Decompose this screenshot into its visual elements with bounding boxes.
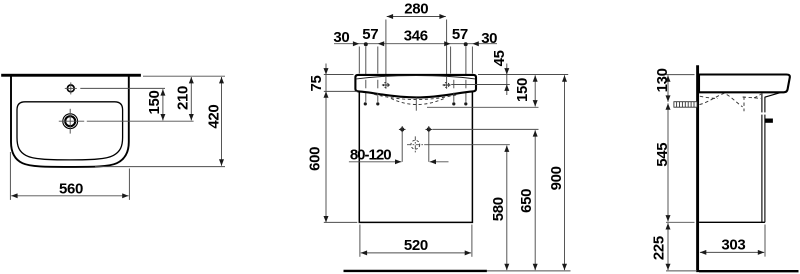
arrow 45 top bbox=[504, 68, 509, 74]
svg-text:30: 30 bbox=[333, 29, 349, 46]
chain arrow inside right (346) bbox=[444, 41, 450, 46]
siphon hole (dashed circle) bbox=[407, 136, 424, 153]
svg-text:80-120: 80-120 bbox=[350, 146, 391, 163]
svg-text:75: 75 bbox=[308, 76, 325, 92]
washbasin front outline bbox=[355, 75, 476, 98]
arrow 75 top bbox=[324, 68, 329, 74]
extension 150 bottom bbox=[427, 106, 539, 108]
extension line 130 top bbox=[666, 74, 695, 76]
basin inner rim arc bbox=[356, 76, 475, 79]
cabinet side body front edge bbox=[761, 94, 763, 223]
chain extension lines bbox=[358, 47, 360, 74]
svg-text:150: 150 bbox=[514, 78, 531, 102]
faucet hole right bbox=[443, 77, 451, 89]
80-120 leader right bbox=[430, 161, 449, 163]
svg-text:600: 600 bbox=[306, 147, 323, 171]
svg-text:45: 45 bbox=[491, 50, 508, 66]
washbasin outer rim bbox=[11, 76, 129, 166]
floor line thin (extension) bbox=[487, 270, 571, 272]
hidden bowl profile dashed bbox=[700, 93, 743, 106]
fixing dot 1 bbox=[364, 102, 367, 105]
svg-text:650: 650 bbox=[518, 189, 535, 213]
chain dot right (57) bbox=[464, 42, 468, 46]
extension lines 520 bbox=[359, 225, 361, 257]
faucet hole left bbox=[382, 77, 390, 89]
support gusset diagonal bbox=[765, 93, 781, 98]
fixing dot 4 bbox=[464, 102, 467, 105]
fixing dot 3 bbox=[452, 102, 455, 105]
door seam gap bbox=[761, 112, 766, 114]
dimension 560 bbox=[11, 195, 128, 197]
extension cabinet bottom left bbox=[324, 221, 358, 223]
svg-text:420: 420 bbox=[205, 105, 222, 129]
extension lines from fixing holes down bbox=[401, 133, 403, 162]
cabinet fixing hole left bbox=[399, 126, 406, 133]
dimension 150 (overflow to drain) bbox=[162, 89, 164, 120]
extension faucet height (45) bbox=[451, 84, 510, 86]
dimension 45 column bbox=[506, 64, 508, 96]
extension 580 (to siphon hole) bbox=[424, 144, 510, 146]
floor line right view bbox=[699, 270, 799, 272]
extension 303 (door front) bbox=[764, 225, 766, 257]
chain dot left (57) bbox=[364, 42, 368, 46]
extension lines for 560 bbox=[9, 152, 11, 200]
dimension 210 (rim to drain) bbox=[190, 77, 192, 120]
dimension column 75/600 bbox=[325, 64, 327, 223]
extension line top (from wall bar end) bbox=[143, 75, 225, 77]
svg-text:225: 225 bbox=[650, 236, 667, 260]
drain crosshair horizontal + leader bbox=[59, 120, 194, 122]
arrow 600 bottom bbox=[324, 216, 329, 222]
extension line floor left bbox=[666, 270, 697, 272]
wall line bbox=[696, 65, 699, 272]
svg-text:545: 545 bbox=[654, 143, 671, 167]
extension basin bottom left bbox=[324, 90, 358, 92]
svg-text:560: 560 bbox=[59, 180, 83, 197]
door handle bbox=[765, 119, 772, 122]
svg-text:150: 150 bbox=[146, 90, 163, 114]
vanity cabinet front bbox=[359, 92, 472, 223]
dimension 650 bbox=[534, 130, 536, 270]
svg-text:580: 580 bbox=[490, 197, 507, 221]
fixing dot 2 bbox=[376, 102, 379, 105]
hidden bowl inner dashed bbox=[700, 94, 761, 99]
floor line thick (under cabinet) bbox=[344, 270, 487, 272]
wall bar (back edge) bbox=[1, 74, 141, 77]
svg-text:900: 900 bbox=[548, 166, 565, 190]
dimension 280 bbox=[387, 16, 446, 18]
washbasin side profile bbox=[699, 75, 790, 93]
washbasin inner bowl bbox=[17, 102, 123, 160]
dimension 130 bbox=[667, 75, 669, 101]
extension line cabinet bottom bbox=[666, 221, 695, 223]
drain pipe (threaded, in wall) bbox=[674, 102, 697, 108]
arrow 45 bottom bbox=[504, 85, 509, 91]
dimension 225 bbox=[667, 223, 669, 270]
svg-text:30: 30 bbox=[481, 30, 497, 47]
dimension 303 bbox=[700, 251, 764, 253]
80-120 leader left bbox=[349, 161, 402, 163]
overflow leader line bbox=[80, 87, 165, 89]
cabinet fixing hole right bbox=[426, 126, 433, 133]
dimension 545 bbox=[667, 103, 669, 221]
dimension 580 bbox=[506, 146, 508, 271]
chain arrow outside right (30) bbox=[472, 41, 478, 46]
extension 650 (to fixing hole) bbox=[432, 128, 538, 130]
extension lines for 280 (faucet holes) bbox=[385, 20, 387, 91]
extension basin top left bbox=[324, 74, 354, 76]
chain dimension line 30/57/346/57/30 bbox=[334, 43, 497, 45]
svg-text:346: 346 bbox=[404, 27, 428, 44]
drain hole symbol bbox=[63, 114, 78, 129]
chain arrow inside left (346) bbox=[378, 41, 384, 46]
extension line basin front edge bbox=[95, 166, 225, 168]
arrow 75/600 shared bbox=[324, 91, 329, 97]
svg-text:130: 130 bbox=[654, 68, 671, 92]
svg-text:57: 57 bbox=[452, 26, 468, 43]
svg-text:57: 57 bbox=[362, 26, 378, 43]
dimension 150 bbox=[534, 75, 536, 106]
dimension 900 bbox=[564, 75, 566, 270]
fixing hole column segments inside basin bbox=[366, 80, 466, 102]
cabinet bottom bbox=[699, 221, 765, 223]
svg-text:210: 210 bbox=[175, 86, 192, 110]
cabinet door front edge bbox=[764, 97, 766, 222]
chain arrow outside left (30) bbox=[353, 41, 359, 46]
svg-text:520: 520 bbox=[404, 237, 428, 254]
dimension 520 bbox=[361, 252, 471, 254]
overflow hole bbox=[65, 82, 77, 94]
drain crosshair vertical bbox=[69, 109, 71, 134]
hidden drain vertical dashed bbox=[743, 97, 745, 112]
hidden bowl dashed arc upper bbox=[374, 94, 459, 99]
dimension 420 (depth) bbox=[221, 77, 223, 166]
extension basin top right (to 150/900) bbox=[478, 74, 568, 76]
hidden bowl dashed arc lower bbox=[391, 99, 444, 105]
svg-text:303: 303 bbox=[721, 236, 745, 253]
svg-text:280: 280 bbox=[404, 1, 428, 18]
drain centerline bbox=[415, 98, 417, 111]
